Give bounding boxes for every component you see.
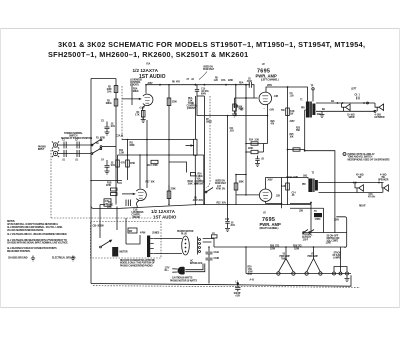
svg-text:1,500: 1,500 bbox=[326, 243, 332, 245]
svg-text:4.7K: 4.7K bbox=[121, 162, 126, 165]
transformer T1 core bbox=[311, 102, 312, 118]
capacitor C5 coupling symbol bbox=[249, 82, 254, 98]
wire: V2 plate to T1 bbox=[266, 87, 308, 102]
connector P1 comb bbox=[147, 236, 150, 258]
svg-text:1ST AUDIO: 1ST AUDIO bbox=[139, 74, 166, 80]
svg-text:C19B: C19B bbox=[214, 258, 220, 260]
changer internal switch bbox=[101, 240, 112, 247]
tube V2 circle bbox=[259, 92, 272, 105]
capacitor pair on line1 bbox=[64, 142, 79, 149]
svg-text:245V: 245V bbox=[290, 120, 295, 123]
svg-text:16Ω: 16Ω bbox=[303, 176, 307, 178]
svg-text:470K: 470K bbox=[153, 164, 158, 167]
ground C4 bbox=[105, 171, 110, 174]
svg-text:SPKR: SPKR bbox=[349, 117, 355, 119]
svg-text:ALL VOLTAGES ARE D.C. UNLESS O: ALL VOLTAGES ARE D.C. UNLESS OTHERWISE S… bbox=[7, 233, 67, 236]
wires motor plug to interlock bbox=[154, 239, 182, 254]
transformer T2 primary bbox=[308, 179, 312, 193]
svg-text:150K: 150K bbox=[188, 184, 193, 186]
wires into changer box bbox=[100, 205, 126, 245]
chassis dash bottom bbox=[93, 286, 360, 288]
svg-text:470 5%: 470 5% bbox=[368, 196, 375, 199]
svg-text:125°F: 125°F bbox=[303, 240, 309, 242]
capacitor in cluster bbox=[255, 156, 259, 164]
wire R13 y162 bbox=[169, 162, 187, 173]
svg-text:APUS IN INSTALL 40 WATT DAMPIN: APUS IN INSTALL 40 WATT DAMPING NETWORK … bbox=[7, 223, 58, 226]
svg-text:20%: 20% bbox=[231, 225, 235, 227]
svg-text:+15V: +15V bbox=[235, 296, 241, 298]
pot R16 body bbox=[194, 139, 197, 155]
svg-text:3K02 ONLY: 3K02 ONLY bbox=[203, 69, 215, 71]
cluster R14 resistors bbox=[246, 143, 264, 145]
svg-text:3K01 & 3K02 SCHEMATIC FOR MODE: 3K01 & 3K02 SCHEMATIC FOR MODELS ST1950T… bbox=[58, 40, 365, 49]
svg-text:(LEFT CHANNEL): (LEFT CHANNEL) bbox=[261, 79, 279, 82]
wire: V1B cathode hook bbox=[136, 201, 139, 209]
frame top border bbox=[1, 28, 400, 30]
svg-text:ALL VOLTAGES ARE MEASURED WITH: ALL VOLTAGES ARE MEASURED WITH VTVM RESP… bbox=[7, 239, 67, 242]
svg-text:265V: 265V bbox=[268, 180, 273, 182]
bus y247 bbox=[214, 246, 346, 248]
svg-text:10%: 10% bbox=[221, 80, 225, 82]
svg-text:10K: 10K bbox=[290, 137, 294, 139]
svg-text:R29 17Ω: R29 17Ω bbox=[293, 245, 302, 247]
plug P2 line cord bbox=[178, 267, 185, 275]
svg-text:PWR AMP: PWR AMP bbox=[308, 255, 319, 258]
svg-text:220K: 220K bbox=[248, 148, 253, 150]
svg-text:(RIGHT CHANNEL): (RIGHT CHANNEL) bbox=[260, 227, 279, 230]
wire: T2 secondary bottom y192.5 bbox=[319, 192, 383, 194]
svg-text:(REAR): (REAR) bbox=[133, 216, 141, 219]
capacitor C18 on bottom bus bbox=[237, 282, 239, 284]
wire: grid return rail x169 bbox=[168, 85, 170, 205]
resistor R3 1MEG bbox=[114, 99, 118, 106]
svg-text:VALUES SHOWN IN MICROFARADS.: VALUES SHOWN IN MICROFARADS. bbox=[7, 229, 44, 232]
svg-text:4 PIN: 4 PIN bbox=[140, 232, 146, 235]
resistor R4 cathode bbox=[141, 111, 145, 118]
svg-text:RIGHT: RIGHT bbox=[359, 206, 366, 208]
transformer T3 blob bbox=[314, 213, 322, 217]
wire: left ground spine bbox=[90, 206, 92, 284]
connector socket oval bbox=[182, 236, 190, 255]
wire: screen rail x287.5 bbox=[287, 87, 289, 205]
chassis boundary dash vertical x51 bbox=[50, 150, 52, 218]
wire: V1A cathode bbox=[142, 106, 145, 121]
heater pin circles bbox=[277, 272, 280, 275]
ground: V1A cathode bbox=[141, 117, 146, 123]
svg-text:A–B: A–B bbox=[248, 273, 253, 276]
svg-text:10K: 10K bbox=[151, 182, 155, 184]
svg-text:1MEG: 1MEG bbox=[133, 91, 139, 93]
wire: y174.5 link bbox=[236, 174, 246, 176]
resistor 220K on x169 bbox=[167, 98, 171, 106]
svg-text:CB–302W: CB–302W bbox=[93, 224, 105, 228]
switch S1B second pole bbox=[92, 149, 101, 154]
svg-text:2.7K: 2.7K bbox=[135, 115, 140, 117]
grid-leak rail x234.5 with 100K bbox=[246, 85, 258, 195]
svg-text:R24A: R24A bbox=[287, 176, 293, 179]
svg-text:PHONO MOTOR 10 WATTS: PHONO MOTOR 10 WATTS bbox=[170, 279, 197, 282]
jack J1 bbox=[53, 143, 57, 147]
svg-text:2.2M: 2.2M bbox=[119, 153, 124, 155]
svg-text:PHONO: MUTE ALL/RELAY: PHONO: MUTE ALL/RELAY bbox=[348, 153, 376, 156]
svg-text:MOTOR: MOTOR bbox=[120, 252, 128, 254]
svg-text:20%: 20% bbox=[199, 200, 203, 202]
capacitor C4 hang at x107 bbox=[105, 160, 110, 171]
power box outline bbox=[310, 205, 312, 233]
svg-text:→10B: →10B bbox=[272, 96, 278, 98]
thermal cutout symbol bbox=[304, 230, 315, 233]
node dot 226 bbox=[225, 84, 227, 86]
changer misc parts bbox=[128, 228, 137, 233]
bottom bus y283.5 bbox=[91, 275, 351, 286]
svg-text:680K: 680K bbox=[130, 145, 135, 147]
svg-text:56K: 56K bbox=[296, 130, 300, 132]
ground T1 16ohm bbox=[320, 111, 325, 117]
resistor R2 100K bbox=[114, 86, 118, 93]
svg-text:4Ω: 4Ω bbox=[331, 100, 334, 103]
svg-text:LAMPS: LAMPS bbox=[333, 257, 341, 260]
svg-text:470K: 470K bbox=[106, 184, 111, 187]
svg-text:MODELS ONLY: THIS PORTION OF: MODELS ONLY: THIS PORTION OF bbox=[120, 263, 155, 265]
wire: secondary top y103 bbox=[316, 102, 368, 104]
wire: V3 plate to T2 bbox=[266, 178, 308, 190]
frame right border bbox=[399, 29, 400, 308]
wire: V2 cathode rails bbox=[267, 104, 269, 143]
speaker SP4 ext right bbox=[382, 183, 384, 188]
link y115.5 bbox=[197, 96, 268, 116]
test point TP bbox=[312, 88, 314, 90]
ground grid leak bbox=[232, 111, 237, 117]
svg-text:TONE AND VOL SWITCH: TONE AND VOL SWITCH bbox=[348, 156, 373, 159]
main mid bus y204.5 bbox=[91, 205, 311, 209]
svg-text:C19A: C19A bbox=[214, 251, 220, 254]
svg-text:8Ω: 8Ω bbox=[322, 109, 325, 111]
chassis boundary dash horizontal y218 bbox=[51, 217, 152, 219]
svg-text:→12B: →12B bbox=[274, 196, 280, 198]
wire: 1MEG rail x132 bbox=[131, 85, 133, 105]
svg-text:100K: 100K bbox=[237, 107, 242, 109]
svg-text:3K02 ONLY: 3K02 ONLY bbox=[215, 183, 227, 185]
transformer T2 secondary bbox=[315, 180, 318, 191]
pilot lamp circles bbox=[333, 272, 336, 275]
dashed linkage x122 bbox=[121, 86, 123, 140]
svg-text:470K: 470K bbox=[100, 137, 105, 140]
svg-text:1/2 12AX7A: 1/2 12AX7A bbox=[151, 209, 176, 214]
ground cluster bbox=[255, 164, 260, 167]
svg-text:260V: 260V bbox=[334, 220, 339, 222]
svg-text:470K: 470K bbox=[216, 188, 221, 191]
wire: top-left link y78.5 bbox=[91, 78, 116, 80]
wire: V3 cathode bbox=[266, 178, 282, 209]
svg-text:MICROPHONE: USED 1/4″ ON SPEAK: MICROPHONE: USED 1/4″ ON SPEAKERS bbox=[348, 158, 391, 161]
svg-text:1MEG: 1MEG bbox=[206, 122, 212, 124]
ground C13 bbox=[225, 229, 230, 232]
record changer dashed box bbox=[91, 222, 162, 259]
resistor rail x127.5 bbox=[127, 140, 129, 181]
svg-text:(FRONT): (FRONT) bbox=[187, 108, 196, 110]
svg-text:47K: 47K bbox=[176, 81, 180, 84]
frame bottom border bbox=[1, 307, 400, 309]
wire: stub bus to box J5B bbox=[290, 203, 311, 205]
heater chain line bbox=[246, 273, 351, 275]
box right rounded edge bbox=[336, 217, 347, 248]
wire: V1B plate riser bbox=[139, 155, 141, 189]
svg-text:CAUTION 90 WATTS: CAUTION 90 WATTS bbox=[172, 277, 193, 280]
tone rail x204.4 bbox=[203, 96, 205, 205]
svg-text:470K: 470K bbox=[130, 162, 135, 165]
svg-text:60∼: 60∼ bbox=[165, 270, 169, 272]
svg-text:1.07K: 1.07K bbox=[293, 177, 299, 179]
wire: speaker return to box bbox=[310, 203, 312, 205]
capacitor C1B bars bbox=[126, 200, 131, 207]
dashed tone linkage x210 bbox=[206, 96, 210, 188]
capacitor pair on line2 bbox=[64, 150, 79, 157]
svg-text:10%: 10% bbox=[111, 165, 115, 167]
pin strip bbox=[197, 237, 199, 255]
wire: switch to loudness bbox=[102, 146, 116, 148]
heater V3 tent bbox=[307, 259, 321, 272]
volume pot R16 rail bbox=[194, 96, 196, 205]
component C15 box above bbox=[104, 199, 111, 206]
wire: heater feed left bbox=[245, 247, 247, 274]
svg-text:10%: 10% bbox=[222, 203, 226, 205]
svg-text:INPUT: INPUT bbox=[38, 149, 45, 151]
svg-text:PHONO CHANGER/END PHONO: PHONO CHANGER/END PHONO bbox=[120, 264, 153, 267]
svg-text:SFH2500T–1, MH2600–1, RK2600,: SFH2500T–1, MH2600–1, RK2600, SK2501T & … bbox=[48, 50, 248, 59]
heater V2 tent bbox=[278, 259, 293, 272]
svg-text:ALL READINGS TAKEN AT CONNECTI: ALL READINGS TAKEN AT CONNECTION POINTS bbox=[7, 247, 57, 250]
node C9 junction bbox=[287, 86, 289, 88]
wire: spkr1 bottom stub bbox=[343, 107, 345, 111]
svg-text:PLUG: PLUG bbox=[181, 234, 187, 236]
wire: AC switch line y232.5 bbox=[302, 232, 344, 234]
transformer T2 core bbox=[313, 179, 314, 193]
ground pilot lamp bbox=[345, 275, 350, 281]
svg-text:600V: 600V bbox=[201, 93, 206, 95]
wire: cluster rail x263.5 bbox=[263, 144, 265, 153]
resistor rail x117.5 bbox=[118, 155, 123, 183]
resistor 5.6K screen bbox=[286, 108, 290, 116]
svg-text:CHASSIS WITH NO SIGNAL INPUT,: CHASSIS WITH NO SIGNAL INPUT, NOMINAL LI… bbox=[7, 242, 69, 245]
wire: grid arrow into V1A bbox=[122, 98, 141, 100]
svg-text:RECORD CHANGER NO–INTRUDE: RECORD CHANGER NO–INTRUDE bbox=[120, 259, 155, 262]
wire: loudness rail x116 bbox=[115, 79, 117, 205]
svg-text:PRI: PRI bbox=[302, 184, 306, 186]
terminal circles left spkr line bbox=[367, 102, 369, 104]
wire: grid into V3 bbox=[236, 194, 259, 196]
tube V1B arc bbox=[136, 189, 146, 200]
svg-text:INTERLOCK: INTERLOCK bbox=[190, 263, 203, 265]
svg-text:265V: 265V bbox=[148, 83, 153, 85]
wire: input line 1 bbox=[58, 144, 92, 146]
svg-text:1/2 12AX7A: 1/2 12AX7A bbox=[133, 68, 159, 73]
capacitor C13 below bus bbox=[225, 116, 229, 229]
screen resistor right bbox=[286, 183, 290, 190]
switch S1 bbox=[92, 140, 101, 146]
svg-text:LEFT: LEFT bbox=[351, 89, 357, 91]
capacitor drop at x235.8 bbox=[234, 85, 238, 116]
motor M1 bbox=[112, 247, 118, 257]
svg-text:MEASURED POSITION.: MEASURED POSITION. bbox=[7, 250, 31, 253]
svg-text:1ST AUDIO: 1ST AUDIO bbox=[153, 215, 177, 220]
wire: grid into V1B bbox=[122, 193, 135, 195]
svg-text:PRI: PRI bbox=[301, 108, 305, 110]
capacitor C19A C19B stack bbox=[206, 247, 213, 284]
speaker SP2 ext left bbox=[375, 103, 379, 107]
lamp stubs and tie bbox=[334, 247, 347, 272]
tube V3 circle bbox=[259, 189, 271, 201]
svg-text:1.2K: 1.2K bbox=[214, 80, 219, 82]
wire: V1A plate riser bbox=[146, 85, 250, 94]
resistor R26 to feedback node bbox=[288, 149, 305, 151]
note 2: phono mute note bbox=[343, 153, 346, 156]
capacitor C10 drop at x197 bbox=[195, 85, 199, 96]
svg-text:3.3K: 3.3K bbox=[255, 140, 260, 142]
tube V1A arc bbox=[143, 94, 153, 105]
svg-text:ALL RESISTORS ARE 1/2W NOMINAL: ALL RESISTORS ARE 1/2W NOMINAL. 10% TOL.… bbox=[7, 226, 63, 229]
node dot 195.5 bbox=[195, 84, 197, 86]
node dots on mid wires bbox=[127, 139, 129, 141]
svg-text:5%: 5% bbox=[222, 189, 225, 191]
svg-text:220K: 220K bbox=[228, 80, 233, 82]
capacitor C3 .02 with ground (above input sw) bbox=[105, 122, 110, 133]
wires pin strip to interlock bbox=[203, 239, 214, 248]
switch S2 tone bbox=[206, 188, 213, 193]
wire: cluster to cathode rail bbox=[264, 143, 268, 145]
wire: input line 2 bbox=[58, 153, 91, 155]
jack J2 bbox=[53, 151, 57, 155]
svg-text:SPKR: SPKR bbox=[379, 117, 385, 119]
frame left border bbox=[0, 29, 2, 308]
svg-text:PWR. AMP: PWR. AMP bbox=[260, 222, 281, 227]
svg-text:220K: 220K bbox=[171, 189, 176, 191]
svg-text:PWR. AMP: PWR. AMP bbox=[256, 73, 277, 78]
svg-text:1MEG: 1MEG bbox=[106, 103, 112, 105]
wire: secondary bottom y111.3 bbox=[316, 110, 375, 112]
speaker SP1 left channel bbox=[342, 103, 346, 107]
junction dots speaker lines bbox=[342, 102, 344, 104]
svg-text:+2.6V: +2.6V bbox=[139, 108, 145, 110]
svg-text:220K: 220K bbox=[172, 102, 177, 104]
speaker SP3 right channel bbox=[355, 183, 359, 188]
wire: feedback from T1 bottom bbox=[305, 118, 335, 234]
svg-text:(FRONT): (FRONT) bbox=[196, 184, 205, 186]
svg-text:5.6K: 5.6K bbox=[281, 186, 286, 188]
svg-text:180K: 180K bbox=[239, 182, 244, 184]
wire: left rail x92 bbox=[90, 79, 92, 206]
rail x236 180K bbox=[235, 175, 237, 205]
wire: rail x147 bbox=[146, 120, 148, 188]
svg-text:100 MF: 100 MF bbox=[234, 293, 242, 295]
svg-text:.0047: .0047 bbox=[247, 80, 253, 83]
svg-text:10%: 10% bbox=[107, 92, 111, 94]
resistor 220K V1B grid bbox=[168, 185, 170, 205]
svg-text:J5B: J5B bbox=[299, 211, 303, 213]
svg-text:+16V: +16V bbox=[269, 110, 275, 112]
transformer T1 primary winding bbox=[306, 102, 310, 118]
svg-text:265V: 265V bbox=[267, 85, 272, 87]
svg-text:17050: 17050 bbox=[315, 219, 322, 221]
mid wire y139.5 bbox=[122, 139, 194, 141]
svg-text:JONES: JONES bbox=[152, 233, 160, 235]
node dot plate junction bbox=[145, 84, 147, 86]
svg-text:SPEAKER: SPEAKER bbox=[378, 179, 389, 182]
svg-text:NOTES:: NOTES: bbox=[7, 221, 15, 223]
svg-text:10%: 10% bbox=[111, 126, 115, 128]
transformer T1 secondary bbox=[312, 104, 315, 116]
svg-text:17Ω: 17Ω bbox=[275, 245, 279, 247]
wire: grid net top y180.5 bbox=[91, 180, 122, 182]
mid wire y155 bbox=[118, 155, 204, 205]
wire: T2 secondary top y182.5 bbox=[319, 182, 384, 184]
svg-text:R5A: R5A bbox=[239, 82, 244, 85]
svg-text:A–B: A–B bbox=[250, 278, 255, 281]
svg-text:V1A: V1A bbox=[146, 63, 151, 66]
svg-text:CHASSIS GROUND: CHASSIS GROUND bbox=[8, 257, 28, 260]
svg-text:(FRONT): (FRONT) bbox=[130, 85, 139, 87]
